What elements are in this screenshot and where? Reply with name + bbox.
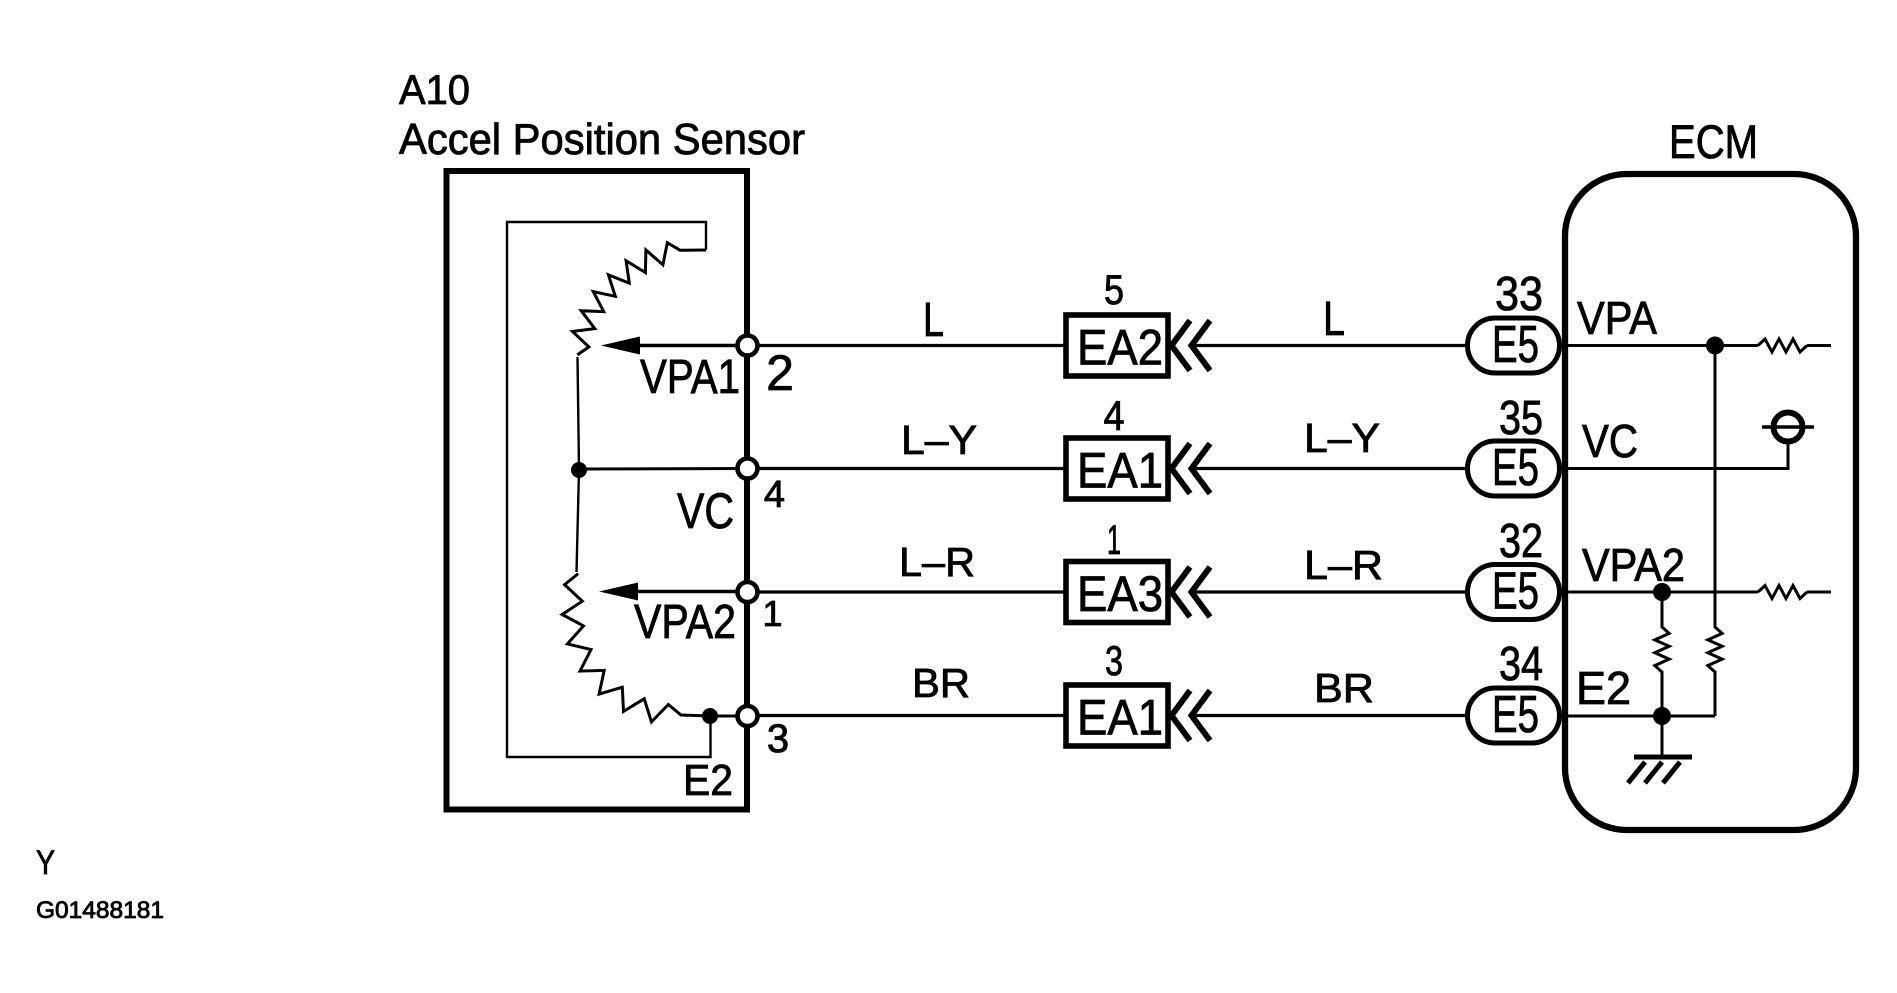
svg-text:EA1: EA1 (1077, 690, 1163, 746)
svg-text:VPA2: VPA2 (634, 596, 736, 649)
svg-text:EA2: EA2 (1077, 320, 1163, 376)
wire E2 internal (1562, 715, 1715, 718)
svg-text:33: 33 (1495, 268, 1543, 321)
chevron pair (inline connector, row 4) (1172, 691, 1211, 741)
svg-text:L–Y: L–Y (901, 417, 977, 463)
resistor R-pulldown1 (vertical) (1708, 627, 1722, 672)
svg-text:E5: E5 (1492, 316, 1539, 374)
svg-text:E5: E5 (1492, 439, 1539, 497)
wire after R-vpa2 (1807, 591, 1831, 594)
wire: inner track top/left/bottom path (507, 222, 711, 757)
wire: track mid vertical (577, 357, 580, 572)
connector E5 oval (row 3) (1468, 565, 1560, 620)
connector EA2 box (row 1) (1066, 315, 1168, 376)
wire: VC dot to pin 4 (579, 467, 746, 471)
svg-text:1: 1 (1107, 516, 1121, 563)
chevron pair (inline connector, row 2) (1172, 444, 1211, 494)
terminal circle pin 2 (738, 336, 758, 356)
svg-text:EA1: EA1 (1077, 443, 1163, 499)
VC source symbol crossing line (1762, 425, 1814, 428)
svg-text:E2: E2 (1576, 662, 1631, 714)
svg-text:E2: E2 (683, 756, 733, 805)
wire VPA internal (1562, 344, 1758, 347)
svg-text:A10: A10 (399, 66, 470, 113)
svg-text:E5: E5 (1492, 563, 1539, 621)
wire BR segment 2 (row 4) (1194, 714, 1466, 717)
wire L segment 2 (row 1) (1194, 344, 1466, 347)
wire L segment 1 (row 1) (757, 344, 1064, 347)
svg-text:2: 2 (766, 345, 794, 401)
svg-text:32: 32 (1499, 515, 1543, 568)
svg-text:ECM: ECM (1669, 115, 1758, 168)
resistor R-track1 (upper arc track) (573, 243, 707, 355)
svg-text:EA3: EA3 (1077, 566, 1163, 622)
wire VPA-to-E2 vertical (1714, 346, 1717, 629)
resistor R-pulldown2 (vertical) (1655, 627, 1669, 672)
ECM box (1565, 174, 1856, 830)
connector EA1 box (row 2) (1066, 438, 1168, 499)
terminal circle pin 1 (738, 582, 758, 602)
svg-text:VPA1: VPA1 (640, 351, 740, 404)
svg-text:E5: E5 (1492, 686, 1539, 744)
svg-text:4: 4 (1104, 392, 1125, 439)
svg-text:VPA2: VPA2 (1582, 539, 1685, 591)
terminal circle pin 3 (738, 706, 758, 726)
wire VPA2 internal (1562, 591, 1758, 594)
svg-text:VPA: VPA (1577, 292, 1657, 344)
svg-text:L–R: L–R (899, 539, 975, 585)
chevron pair (inline connector, row 1) (1172, 321, 1211, 371)
wiper arrow VPA1 (601, 337, 744, 355)
svg-text:3: 3 (767, 717, 789, 761)
svg-text:BR: BR (1314, 665, 1374, 711)
connector E5 oval (row 4) (1468, 688, 1560, 743)
wire L–R segment 1 (row 3) (757, 590, 1064, 593)
wire E2 to ground (1661, 716, 1664, 757)
ground symbol (1628, 757, 1692, 783)
VC source symbol (circle) (1774, 413, 1803, 442)
svg-text:1: 1 (762, 593, 782, 634)
sensor A10 box (447, 171, 748, 810)
junction dot E2 (1653, 707, 1671, 725)
svg-text:35: 35 (1499, 392, 1543, 445)
terminal circle pin 4 (738, 459, 758, 479)
resistor R-track2 (lower arc track) (562, 574, 710, 722)
svg-text:L: L (923, 294, 944, 347)
svg-text:VC: VC (1582, 415, 1638, 467)
connector EA1 box (row 4) (1066, 685, 1168, 746)
svg-text:Y: Y (36, 844, 55, 882)
wire L–Y segment 2 (row 2) (1194, 467, 1466, 470)
svg-text:G01488181: G01488181 (36, 897, 164, 924)
wire L–R segment 2 (row 3) (1194, 590, 1466, 593)
svg-text:L: L (1323, 293, 1345, 346)
svg-text:BR: BR (912, 660, 970, 706)
wire L–Y segment 1 (row 2) (757, 467, 1064, 470)
svg-text:3: 3 (1105, 637, 1123, 684)
svg-text:4: 4 (764, 474, 785, 516)
connector E5 oval (row 2) (1468, 441, 1560, 496)
resistor R-vpa2 (horizontal) (1758, 586, 1807, 599)
wire VC internal (1562, 444, 1788, 469)
svg-text:L–Y: L–Y (1304, 415, 1380, 461)
chevron pair (inline connector, row 3) (1172, 567, 1211, 617)
wire: E2 dot to pin 3 (710, 715, 746, 718)
wire below R-pulldown2 (1661, 671, 1664, 716)
wire VPA2-to-E2 vertical (1661, 592, 1664, 628)
connector E5 oval (row 1) (1468, 318, 1560, 373)
junction dot VC (inner) (571, 462, 587, 478)
junction dot VPA (1706, 337, 1724, 355)
connector EA3 box (row 3) (1066, 562, 1168, 623)
svg-text:34: 34 (1499, 638, 1543, 691)
resistor R-vpa (horizontal) (1758, 339, 1807, 352)
junction dot E2 (inner) (702, 708, 718, 724)
svg-text:L–R: L–R (1304, 542, 1383, 588)
wire below R-pulldown1 (1714, 671, 1717, 716)
wire BR segment 1 (row 4) (757, 714, 1064, 717)
svg-text:VC: VC (677, 483, 734, 539)
wiper arrow VPA2 (599, 583, 744, 601)
svg-text:5: 5 (1104, 266, 1124, 313)
wire after R-vpa (1807, 344, 1831, 347)
svg-text:Accel Position Sensor: Accel Position Sensor (399, 115, 805, 164)
junction dot VPA2 (1653, 583, 1671, 601)
